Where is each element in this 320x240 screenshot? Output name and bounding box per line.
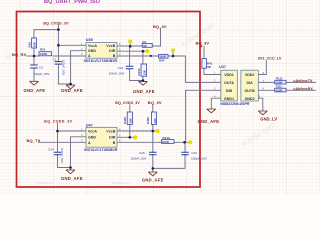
svg-text:A: A xyxy=(88,141,91,145)
svg-text:C21: C21 xyxy=(118,66,124,70)
svg-text:U37: U37 xyxy=(219,65,226,69)
svg-text:OUTA: OUTA xyxy=(224,81,234,85)
svg-text:BQ_3V: BQ_3V xyxy=(196,40,210,45)
svg-text:BQ_RX: BQ_RX xyxy=(12,52,27,57)
svg-text:VDD2: VDD2 xyxy=(245,73,255,77)
svg-text:VccB: VccB xyxy=(106,130,115,134)
svg-text:R34: R34 xyxy=(159,59,165,63)
svg-text:10K: 10K xyxy=(153,118,157,123)
svg-text:GND_LV: GND_LV xyxy=(260,116,277,121)
svg-text:VccA: VccA xyxy=(88,44,97,48)
svg-text:100μF_50V: 100μF_50V xyxy=(34,72,51,76)
svg-text:B: B xyxy=(113,54,116,58)
svg-text:100nF_50V: 100nF_50V xyxy=(131,156,148,160)
svg-text:DIB: DIB xyxy=(226,89,233,93)
svg-text:100R: 100R xyxy=(159,54,167,58)
svg-text:BQ_CVDD_3V: BQ_CVDD_3V xyxy=(43,21,69,25)
svg-text:100μF_50V: 100μF_50V xyxy=(191,156,208,160)
svg-text:BQ_3V: BQ_3V xyxy=(148,100,162,105)
svg-text:DIR: DIR xyxy=(109,136,116,140)
svg-text:C3: C3 xyxy=(39,66,43,70)
svg-text:BQ_TX: BQ_TX xyxy=(27,138,41,143)
svg-text:R19: R19 xyxy=(28,42,32,48)
svg-text:VccA: VccA xyxy=(88,130,97,134)
svg-text:BQ_CVDD_3V: BQ_CVDD_3V xyxy=(115,101,140,105)
svg-text:100R: 100R xyxy=(162,140,170,144)
svg-text:crostar.cn: crostar.cn xyxy=(112,180,129,185)
svg-text:U47: U47 xyxy=(86,124,93,128)
svg-text:GND_AFE: GND_AFE xyxy=(198,119,220,124)
svg-text:10K: 10K xyxy=(142,70,146,75)
svg-text:SN74LVC1T45DBVR: SN74LVC1T45DBVR xyxy=(84,59,118,63)
svg-text:B: B xyxy=(113,141,116,145)
svg-text:GND_AFE: GND_AFE xyxy=(61,88,83,93)
svg-text:A: A xyxy=(88,54,91,58)
svg-text:100R: 100R xyxy=(276,88,284,92)
svg-text:100R: 100R xyxy=(40,52,48,56)
svg-text:uAb0mxTX: uAb0mxTX xyxy=(293,79,313,83)
svg-text:GND2: GND2 xyxy=(245,97,255,101)
svg-text:100nF_50V: 100nF_50V xyxy=(62,60,66,77)
svg-text:3V3_VCC_LV: 3V3_VCC_LV xyxy=(258,56,282,60)
svg-text:BQ_CVDD_3V: BQ_CVDD_3V xyxy=(44,119,73,123)
svg-text:NSI8222N5-DSPR: NSI8222N5-DSPR xyxy=(220,102,249,106)
svg-text:GND_AFE: GND_AFE xyxy=(24,88,46,93)
svg-text:VccB: VccB xyxy=(106,44,115,48)
svg-text:R21: R21 xyxy=(40,47,46,51)
svg-text:10K: 10K xyxy=(32,42,36,47)
svg-text:R244: R244 xyxy=(137,68,141,75)
svg-text:U35: U35 xyxy=(86,38,93,42)
svg-text:C22: C22 xyxy=(191,151,197,155)
svg-text:GND1: GND1 xyxy=(224,97,234,101)
svg-text:VDD1: VDD1 xyxy=(224,73,234,77)
svg-text:100nF_50V: 100nF_50V xyxy=(60,148,64,165)
svg-text:OUTB: OUTB xyxy=(245,89,256,93)
svg-text:C24: C24 xyxy=(48,147,54,151)
svg-text:BQ_UART_PWR_ISO: BQ_UART_PWR_ISO xyxy=(44,0,101,5)
svg-text:crostar.cn: crostar.cn xyxy=(36,180,53,185)
svg-text:DIR: DIR xyxy=(109,49,116,53)
svg-text:10K: 10K xyxy=(129,118,133,123)
svg-text:SN74LVC1T45DBVR: SN74LVC1T45DBVR xyxy=(84,148,118,152)
svg-text:GND_AFE: GND_AFE xyxy=(142,178,164,183)
svg-text:100R: 100R xyxy=(276,80,284,84)
svg-text:uAb0mxRX: uAb0mxRX xyxy=(293,87,313,91)
svg-text:GND: GND xyxy=(88,49,96,53)
svg-text:GND: GND xyxy=(88,136,96,140)
svg-text:BQ_3V: BQ_3V xyxy=(153,24,167,29)
svg-text:C1: C1 xyxy=(53,58,57,62)
svg-text:C26: C26 xyxy=(139,151,145,155)
svg-text:GND_AFE: GND_AFE xyxy=(61,176,83,181)
svg-text:R448: R448 xyxy=(123,117,127,124)
svg-text:R450: R450 xyxy=(146,117,150,124)
svg-text:100nF_50V: 100nF_50V xyxy=(109,71,126,75)
svg-text:GND_AFE: GND_AFE xyxy=(133,89,155,94)
svg-text:DIA: DIA xyxy=(246,81,253,85)
